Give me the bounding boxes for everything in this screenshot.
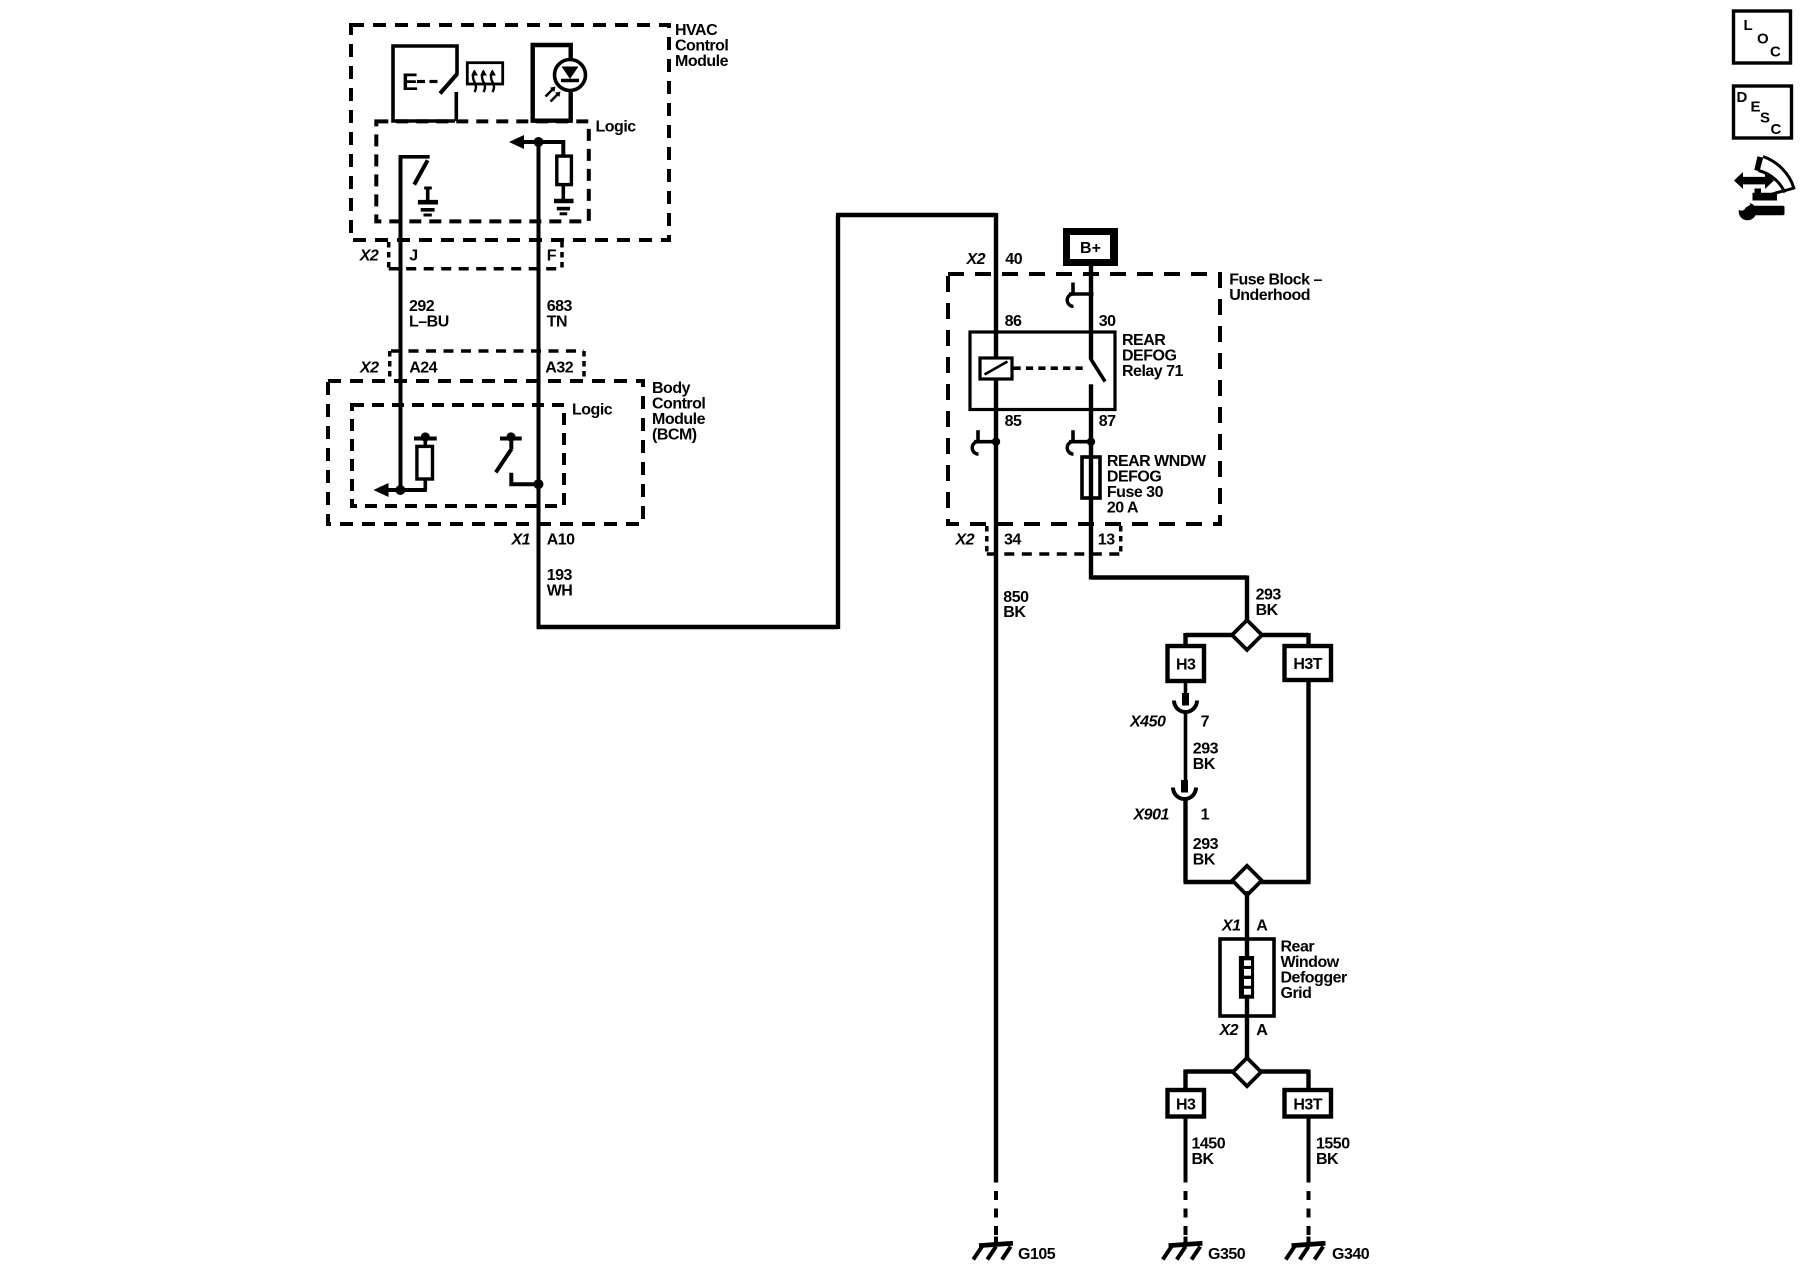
connector X2 (pin A): [1219, 1022, 1269, 1039]
wire relay 85 down: [994, 410, 998, 1183]
svg-text:Control: Control: [652, 396, 705, 413]
connector X1 (pin A): [1221, 918, 1268, 935]
svg-text:Grid: Grid: [1281, 985, 1312, 1002]
harness code H3 (lower): [1168, 1090, 1205, 1117]
schematic navigation icon: [1734, 156, 1794, 200]
svg-text:Relay 71: Relay 71: [1122, 363, 1184, 380]
svg-text:BK: BK: [1193, 852, 1216, 869]
label 683 TN: [547, 298, 573, 331]
svg-text:A24: A24: [409, 360, 437, 377]
wire J (292 L-BU): [399, 155, 403, 490]
svg-text:DEFOG: DEFOG: [1107, 469, 1161, 486]
svg-text:BK: BK: [1316, 1151, 1339, 1168]
dashed wire to G105: [994, 1191, 998, 1240]
wire H3T to splice S2: [1261, 680, 1311, 882]
svg-text:E: E: [402, 69, 418, 96]
svg-text:F: F: [547, 248, 557, 265]
svg-text:85: 85: [1005, 413, 1022, 430]
svg-text:G340: G340: [1332, 1246, 1370, 1263]
svg-text:34: 34: [1004, 532, 1021, 549]
svg-text:H3: H3: [1176, 1097, 1196, 1114]
svg-text:683: 683: [547, 298, 573, 315]
BCM pull-up resistor R2: [417, 440, 433, 490]
dashed wire to G350: [1184, 1191, 1188, 1240]
svg-text:G105: G105: [1018, 1246, 1056, 1263]
BCM internal rail (over resistor): [414, 432, 437, 441]
wire F (683 TN): [537, 142, 541, 627]
svg-text:20 A: 20 A: [1107, 500, 1139, 517]
splice S1: [1232, 620, 1262, 650]
svg-text:E: E: [1751, 99, 1761, 116]
svg-text:292: 292: [409, 298, 435, 315]
splice S2: [1232, 866, 1261, 895]
svg-text:Module: Module: [652, 411, 706, 428]
wire grid to splice S3: [1245, 997, 1249, 1062]
fuse block terminal (B+ feed): [1067, 283, 1093, 307]
connector X2 (pins A24, A32): [359, 351, 584, 379]
svg-text:1: 1: [1201, 807, 1210, 824]
connector X2 (pins 34, 13): [955, 526, 1121, 554]
svg-text:H3T: H3T: [1293, 1097, 1322, 1114]
relay 71 box: [970, 332, 1184, 410]
HVAC logic ground (under resistor): [554, 201, 574, 214]
svg-text:Logic: Logic: [596, 119, 637, 136]
indicator LED D1: [533, 45, 586, 121]
svg-text:7: 7: [1201, 714, 1210, 731]
svg-text:A: A: [1256, 1022, 1268, 1039]
wire B+ to relay pin 30: [1089, 266, 1093, 332]
svg-text:X2: X2: [955, 532, 975, 549]
Rear Window Defogger Grid box: [1220, 939, 1347, 1017]
fuse block terminal (pin 85): [972, 430, 1000, 454]
connector X2 (pins J, F): [359, 242, 562, 269]
svg-text:A32: A32: [545, 360, 573, 377]
harness code H3T (upper): [1285, 646, 1332, 680]
wrench icon: [1736, 198, 1785, 220]
svg-text:293: 293: [1256, 587, 1282, 604]
BCM output arrow: [374, 483, 427, 497]
svg-text:REAR WNDW: REAR WNDW: [1107, 453, 1207, 470]
svg-text:J: J: [409, 248, 417, 265]
svg-text:X2: X2: [1219, 1022, 1239, 1039]
HVAC logic feedback arrow: [509, 135, 544, 149]
wire relay 87 down: [1089, 410, 1093, 580]
svg-text:O: O: [1757, 31, 1769, 48]
BCM internal rail (over switch): [500, 432, 522, 441]
in-line connector X450 pin 7: [1129, 693, 1210, 731]
fuse 30 (20 A): [1082, 453, 1207, 517]
wire H3 to connector X450: [1184, 681, 1188, 694]
svg-text:293: 293: [1193, 836, 1219, 853]
harness code H3 (upper): [1168, 646, 1205, 681]
svg-text:C: C: [1771, 121, 1782, 138]
svg-text:1450: 1450: [1192, 1136, 1226, 1153]
svg-text:Fuse Block –: Fuse Block –: [1229, 272, 1322, 289]
svg-text:40: 40: [1005, 251, 1022, 268]
HVAC logic pull-down resistor R1: [539, 142, 572, 199]
wire 293 BK X901 to splice S2: [1184, 799, 1234, 882]
fuse block terminal (pin 87): [1067, 430, 1095, 454]
battery feed B+: [1063, 228, 1118, 266]
ground G340: [1286, 1237, 1370, 1264]
svg-text:B+: B+: [1080, 240, 1101, 257]
svg-text:BK: BK: [1256, 602, 1279, 619]
LOC icon: [1734, 11, 1791, 63]
relay coil: [980, 332, 1012, 410]
svg-text:Logic: Logic: [572, 402, 613, 419]
svg-text:BK: BK: [1193, 756, 1216, 773]
harness code H3T (lower): [1285, 1090, 1332, 1117]
svg-text:30: 30: [1099, 313, 1116, 330]
svg-text:Control: Control: [675, 38, 728, 55]
HVAC Logic box: [376, 119, 636, 222]
svg-text:Defogger: Defogger: [1281, 970, 1348, 987]
svg-text:WH: WH: [547, 583, 573, 600]
svg-text:Rear: Rear: [1281, 939, 1315, 956]
ground G350: [1163, 1237, 1246, 1264]
BCM switch S2: [496, 440, 544, 489]
Fuse Block - Underhood box: [948, 272, 1323, 525]
wire splice S1 to H3T: [1261, 633, 1309, 646]
svg-text:Module: Module: [675, 53, 729, 70]
svg-text:H3: H3: [1176, 657, 1196, 674]
Body Control Module box: [328, 380, 706, 524]
svg-text:13: 13: [1098, 532, 1115, 549]
svg-text:REAR: REAR: [1122, 332, 1166, 349]
svg-text:X1: X1: [1221, 918, 1241, 935]
svg-text:Window: Window: [1281, 954, 1340, 971]
HVAC logic switch to ground: [399, 155, 430, 185]
svg-text:Fuse 30: Fuse 30: [1107, 484, 1164, 501]
svg-text:Body: Body: [652, 380, 691, 397]
in-line connector X901 pin 1: [1133, 780, 1210, 824]
svg-text:L–BU: L–BU: [409, 314, 449, 331]
relay pin labels: [1005, 313, 1116, 430]
relay contact switch: [1091, 332, 1106, 410]
svg-text:(BCM): (BCM): [652, 427, 697, 444]
svg-text:DEFOG: DEFOG: [1122, 348, 1176, 365]
wire 293 BK from fuse to splice S1: [1091, 576, 1281, 623]
connector X1 (pin A10): [511, 532, 576, 549]
svg-text:87: 87: [1099, 413, 1116, 430]
HVAC Control Module box: [351, 22, 729, 240]
rear-defrost indicator icon: [467, 63, 502, 92]
svg-text:TN: TN: [547, 314, 567, 331]
label 193 WH: [547, 567, 573, 600]
BCM Logic box: [352, 402, 613, 507]
label 292 L-BU: [409, 298, 449, 331]
grid element: [1239, 956, 1254, 999]
HVAC logic ground (under switch): [418, 188, 438, 215]
svg-text:1550: 1550: [1316, 1136, 1350, 1153]
svg-text:X2: X2: [966, 251, 986, 268]
wire 293 BK X450 to X901: [1186, 712, 1219, 781]
svg-text:A: A: [1256, 918, 1268, 935]
connector X2 (pin 40): [966, 251, 1023, 268]
wire splice S3 to H3T (lower): [1261, 1070, 1309, 1091]
wire splice S3 to H3 (lower): [1186, 1070, 1234, 1091]
svg-text:S: S: [1760, 110, 1770, 127]
label 850 BK: [1003, 589, 1029, 621]
dashed wire to G340: [1307, 1191, 1311, 1240]
svg-text:BK: BK: [1003, 604, 1026, 621]
defog switch icon S1 (E switch): [393, 46, 458, 121]
wire 193 WH run to fuse block: [537, 213, 997, 629]
svg-text:A10: A10: [547, 532, 575, 549]
wire 1550 BK: [1309, 1117, 1351, 1183]
svg-text:X2: X2: [359, 248, 379, 265]
svg-text:D: D: [1737, 89, 1748, 106]
svg-text:H3T: H3T: [1293, 656, 1322, 673]
svg-text:X450: X450: [1129, 714, 1166, 731]
svg-text:G350: G350: [1208, 1246, 1246, 1263]
svg-text:193: 193: [547, 567, 573, 584]
svg-text:C: C: [1770, 44, 1781, 61]
relay coil-contact link: [1014, 366, 1087, 370]
svg-text:86: 86: [1005, 313, 1022, 330]
svg-text:HVAC: HVAC: [675, 22, 718, 39]
svg-text:Underhood: Underhood: [1229, 287, 1310, 304]
svg-text:X2: X2: [359, 360, 379, 377]
splice S3: [1233, 1058, 1261, 1086]
wire splice S1 to H3: [1186, 633, 1234, 646]
wire splice S2 to grid: [1245, 891, 1249, 956]
svg-text:X901: X901: [1133, 807, 1170, 824]
wire 1450 BK: [1186, 1117, 1226, 1183]
svg-text:L: L: [1744, 17, 1753, 34]
svg-text:X1: X1: [511, 532, 531, 549]
svg-text:293: 293: [1193, 741, 1219, 758]
ground G105: [973, 1237, 1055, 1264]
DESC icon: [1734, 86, 1792, 138]
svg-text:BK: BK: [1192, 1151, 1215, 1168]
